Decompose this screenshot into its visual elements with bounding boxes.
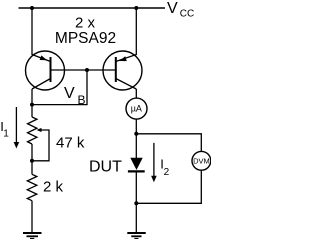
- wire VCC rail: [19, 7, 166, 9]
- svg-text:2 k: 2 k: [43, 179, 64, 196]
- meter M1 microammeter: [126, 98, 147, 119]
- svg-text:2 x: 2 x: [75, 15, 96, 32]
- svg-text:V: V: [64, 85, 75, 102]
- wire ammeter to node: [135, 119, 137, 134]
- node diode bottom junction dot: [134, 201, 138, 205]
- wire base interconnect: [51, 69, 116, 71]
- label 2 k: [43, 179, 64, 196]
- wire R1 bottom to R2: [31, 144, 33, 174]
- node junction dot on rail right: [134, 6, 138, 10]
- wire R2 to ground: [31, 201, 33, 232]
- transistor Q1 (left PNP): [26, 51, 65, 90]
- wire node to ground right: [135, 203, 137, 232]
- wire collector to ammeter: [135, 89, 137, 98]
- svg-text:CC: CC: [180, 8, 194, 19]
- node wiper junction dot: [30, 159, 34, 163]
- label MPSA92: [55, 30, 116, 47]
- wire collector down to R1: [31, 89, 33, 117]
- transistor Q2 (right PNP): [103, 51, 142, 90]
- svg-text:1: 1: [3, 129, 9, 140]
- svg-text:V: V: [167, 0, 178, 17]
- label I2: [160, 157, 169, 178]
- label VCC: [167, 0, 194, 19]
- svg-text:MPSA92: MPSA92: [55, 30, 116, 47]
- wire VB horizontal: [32, 104, 88, 106]
- wire DVM top branch: [136, 134, 201, 152]
- wire wiper tap: [33, 130, 49, 161]
- label VB: [64, 85, 86, 107]
- node collector junction dot left: [30, 103, 34, 107]
- node junction dot on rail left: [30, 6, 34, 10]
- label I1: [0, 119, 9, 140]
- label 47 k: [56, 135, 85, 152]
- svg-text:B: B: [78, 93, 86, 107]
- label DUT: [89, 159, 122, 176]
- meter M2 DVM: [192, 151, 211, 170]
- diode DUT: [128, 158, 145, 172]
- ground right: [127, 233, 145, 239]
- node VB junction dot: [85, 68, 89, 72]
- wire DVM bottom branch: [136, 170, 201, 203]
- label 2 x: [75, 15, 96, 32]
- current arrow I2: [151, 143, 157, 182]
- wire diode cathode to node: [135, 171, 137, 203]
- wire emitter drop left: [31, 8, 33, 55]
- resistor R1 47k potentiometer: [28, 117, 42, 144]
- svg-text:DVM: DVM: [193, 157, 210, 166]
- wire node to diode anode: [135, 134, 137, 158]
- svg-text:47 k: 47 k: [56, 135, 85, 152]
- wire VB vertical: [86, 70, 88, 105]
- ground left: [23, 233, 42, 239]
- wire emitter drop right: [135, 8, 137, 55]
- resistor R2 2k: [27, 174, 37, 200]
- current arrow I1: [14, 107, 20, 149]
- svg-text:2: 2: [164, 167, 170, 178]
- node diode top junction dot: [134, 132, 138, 136]
- svg-text:DUT: DUT: [89, 159, 122, 176]
- svg-text:µA: µA: [131, 104, 142, 114]
